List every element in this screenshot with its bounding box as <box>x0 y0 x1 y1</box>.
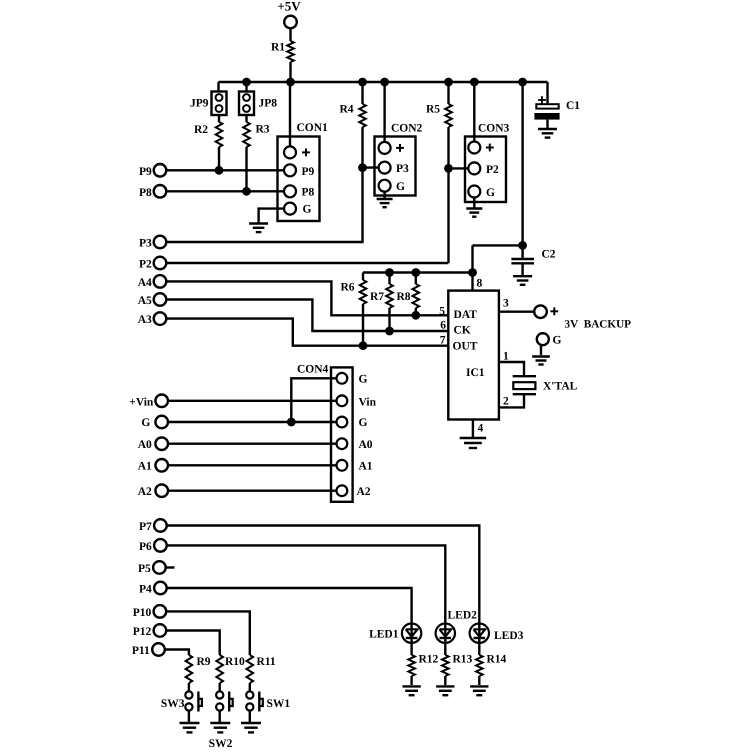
jumper JP9 <box>190 92 227 116</box>
wire <box>245 82 247 92</box>
svg-text:LED3: LED3 <box>494 630 524 642</box>
terminal P9 <box>139 164 166 178</box>
wire <box>245 115 247 122</box>
node CON2 bus <box>380 78 389 87</box>
node R2 P9 <box>215 166 224 175</box>
label SW2 <box>209 738 233 750</box>
pin CON4 G1 <box>337 373 368 386</box>
wire <box>188 683 190 691</box>
ground <box>538 129 557 138</box>
resistor R1 <box>271 41 294 62</box>
svg-text:X'TAL: X'TAL <box>543 381 578 393</box>
svg-text:P9: P9 <box>302 166 315 178</box>
svg-text:A4: A4 <box>138 277 152 289</box>
ground <box>466 209 482 217</box>
resistor R2 <box>194 122 222 147</box>
terminal P7 <box>139 519 167 533</box>
svg-text:R3: R3 <box>256 124 270 136</box>
svg-text:G: G <box>359 417 368 429</box>
svg-text:+Vin: +Vin <box>129 396 154 408</box>
pin CON4 A1 <box>337 460 373 473</box>
wire <box>478 676 480 685</box>
pin CON3 + <box>468 142 493 154</box>
label 3V BACKUP <box>565 318 632 330</box>
terminal P6 <box>139 539 167 553</box>
wire R5 drop <box>447 82 449 104</box>
terminal P11 <box>132 643 165 657</box>
wire vcc pullups <box>363 271 473 273</box>
pin 8 label <box>477 278 483 290</box>
svg-text:CK: CK <box>454 324 471 336</box>
svg-text:P6: P6 <box>139 541 152 553</box>
wire <box>415 273 417 285</box>
terminal A3 <box>138 312 167 326</box>
svg-text:JP8: JP8 <box>259 98 278 110</box>
svg-text:R4: R4 <box>339 104 353 116</box>
svg-text:R1: R1 <box>271 42 285 54</box>
svg-text:A1: A1 <box>138 461 152 473</box>
wire <box>410 643 412 655</box>
svg-text:G: G <box>141 417 150 429</box>
pin CON2 P3 <box>379 162 409 175</box>
wire A3 OUT <box>166 319 448 346</box>
op-amp IC1 body <box>448 291 499 420</box>
wire <box>444 676 446 685</box>
wire G <box>168 421 337 423</box>
svg-text:R12: R12 <box>419 654 439 666</box>
switch SW2 <box>216 691 233 722</box>
svg-text:SW3: SW3 <box>161 698 185 710</box>
svg-text:G: G <box>359 374 368 386</box>
terminal +5V <box>284 16 297 29</box>
svg-text:SW1: SW1 <box>267 698 291 710</box>
wire A1 <box>168 464 337 466</box>
node C2 bus <box>518 78 527 87</box>
svg-text:R7: R7 <box>370 291 384 303</box>
wire pin3 <box>499 311 534 313</box>
resistor R12 <box>408 654 438 677</box>
node R7 ck <box>385 327 394 336</box>
svg-text:P10: P10 <box>133 607 152 619</box>
wire C2 branch <box>521 82 523 258</box>
svg-text:G: G <box>553 334 562 346</box>
svg-text:P3: P3 <box>139 238 152 250</box>
node R5 P2 <box>444 164 453 173</box>
node R4 bus <box>358 78 367 87</box>
svg-text:C1: C1 <box>566 100 580 112</box>
svg-text:P2: P2 <box>486 164 499 176</box>
connector CON2 <box>375 123 423 196</box>
wire C1 drop <box>546 82 548 104</box>
wire <box>363 166 379 168</box>
wire +5V bus <box>219 81 548 83</box>
wire P11 R9 <box>165 650 189 656</box>
pin CON1 + <box>284 146 310 158</box>
pin 6 label <box>440 319 446 331</box>
ground <box>241 723 261 732</box>
svg-text:Vin: Vin <box>359 396 377 408</box>
node R8 vcc <box>411 268 420 277</box>
pin CON3 P2 <box>468 162 499 175</box>
terminal 3V G <box>537 333 562 346</box>
terminal A5 <box>138 293 167 307</box>
wire <box>383 82 385 142</box>
ground <box>210 723 230 732</box>
pin CON3 G <box>468 186 495 199</box>
svg-text:+5V: +5V <box>277 0 301 13</box>
ground <box>460 438 487 448</box>
wire pin1 xtal <box>499 362 524 376</box>
node pin8 vcc <box>468 268 477 277</box>
resistor R5 <box>426 104 452 128</box>
svg-text:A5: A5 <box>138 295 152 307</box>
ground <box>470 686 488 695</box>
svg-text:5: 5 <box>439 305 445 317</box>
wire <box>289 82 291 146</box>
node R3 P8 <box>242 187 251 196</box>
ground <box>249 224 268 233</box>
svg-text:P11: P11 <box>132 645 150 657</box>
svg-text:P8: P8 <box>139 187 152 199</box>
wire A4 DAT <box>166 281 448 315</box>
ground <box>513 276 532 285</box>
wire <box>217 82 219 92</box>
terminal P12 <box>133 624 166 638</box>
svg-text:CON1: CON1 <box>297 122 329 134</box>
svg-text:3: 3 <box>503 298 509 310</box>
jumper JP8 <box>239 92 277 116</box>
wire <box>383 192 385 199</box>
terminal P2 <box>139 257 166 271</box>
LED LED3 <box>470 624 524 643</box>
svg-text:R5: R5 <box>426 104 440 116</box>
svg-text:R2: R2 <box>194 124 208 136</box>
wire A5 CK <box>166 300 448 332</box>
pin CON2 G <box>379 180 405 193</box>
svg-text:A0: A0 <box>138 439 152 451</box>
wire pin4 <box>472 420 474 438</box>
svg-text:P7: P7 <box>139 521 152 533</box>
wire <box>361 127 363 242</box>
svg-text:P8: P8 <box>302 186 315 198</box>
terminal A4 <box>138 275 167 289</box>
svg-text:1: 1 <box>503 351 509 363</box>
terminal P5 <box>138 561 166 575</box>
node R4 P3 <box>358 163 367 172</box>
terminal P10 <box>133 605 166 619</box>
svg-text:P2: P2 <box>139 259 152 271</box>
pin CON4 A0 <box>337 438 373 451</box>
svg-text:OUT: OUT <box>453 341 478 353</box>
connector CON4 <box>297 364 353 502</box>
svg-text:DAT: DAT <box>454 309 478 321</box>
wire P5 stub <box>166 566 175 568</box>
wire <box>362 273 364 281</box>
svg-text:P12: P12 <box>133 626 152 638</box>
wire R4 drop <box>361 82 363 104</box>
resistor R10 <box>216 655 245 683</box>
pin CON4 Vin <box>337 395 377 408</box>
svg-text:R9: R9 <box>197 656 211 668</box>
wire <box>362 304 364 346</box>
wire <box>410 676 412 685</box>
pin CON4 G2 <box>337 417 368 430</box>
wire <box>245 147 247 191</box>
capacitor C2 <box>511 249 555 276</box>
pin 2 label <box>503 396 509 408</box>
svg-text:LED2: LED2 <box>448 610 478 622</box>
svg-text:G: G <box>303 204 312 216</box>
wire <box>249 683 251 691</box>
terminal A0 <box>138 437 168 451</box>
svg-text:C2: C2 <box>542 249 556 261</box>
node R1 bus <box>286 78 295 87</box>
svg-text:A0: A0 <box>359 439 373 451</box>
wire A0 <box>168 443 337 445</box>
node JP8 top <box>242 78 251 87</box>
svg-text:CON2: CON2 <box>391 123 423 135</box>
svg-text:P5: P5 <box>138 563 151 575</box>
ground <box>436 686 454 695</box>
terminal G <box>141 416 168 430</box>
resistor R14 <box>476 654 507 677</box>
connector CON3 <box>465 123 510 203</box>
wire <box>473 198 475 209</box>
svg-text:IC1: IC1 <box>466 367 485 379</box>
svg-text:6: 6 <box>440 319 446 331</box>
wire P9 <box>166 169 284 171</box>
svg-text:CON4: CON4 <box>297 364 329 376</box>
wire <box>218 115 220 122</box>
svg-text:A3: A3 <box>138 314 152 326</box>
svg-text:R8: R8 <box>396 291 410 303</box>
terminal A1 <box>138 459 168 473</box>
wire <box>388 273 390 285</box>
LED LED1 <box>369 624 421 643</box>
resistor R3 <box>243 122 270 147</box>
switch SW3 <box>161 691 202 722</box>
pin 1 label <box>503 351 509 363</box>
svg-text:CON3: CON3 <box>478 123 510 135</box>
wire <box>449 167 469 169</box>
pin 4 label <box>478 423 484 435</box>
wire pin8 drop <box>471 245 473 290</box>
wire P2 <box>166 262 448 264</box>
crystal XTAL <box>513 376 578 394</box>
wire <box>478 643 480 655</box>
svg-text:P3: P3 <box>396 163 409 175</box>
ground <box>180 723 200 732</box>
svg-text:R13: R13 <box>453 654 473 666</box>
node R7 vcc <box>385 268 394 277</box>
svg-text:4: 4 <box>478 423 484 435</box>
wire P4 LED1 <box>167 588 412 623</box>
pin 7 label <box>440 335 446 347</box>
wire P3 <box>166 241 363 243</box>
wire A2 <box>168 490 337 492</box>
resistor R9 <box>186 655 211 683</box>
node CON3 bus <box>470 78 479 87</box>
resistor R8 <box>396 284 419 308</box>
resistor R6 <box>340 280 366 304</box>
svg-text:2: 2 <box>503 396 509 408</box>
ground <box>377 199 393 207</box>
terminal 3V + <box>534 305 558 318</box>
LED LED2 <box>436 610 478 643</box>
svg-text:A2: A2 <box>138 486 152 498</box>
resistor R11 <box>247 655 276 683</box>
svg-text:R10: R10 <box>225 656 245 668</box>
svg-text:P9: P9 <box>139 166 152 178</box>
wire <box>218 147 220 170</box>
pin CON2 + <box>379 142 404 154</box>
wire <box>444 643 446 655</box>
svg-text:8: 8 <box>477 278 483 290</box>
svg-text:G: G <box>486 187 495 199</box>
connector CON1 <box>278 122 329 221</box>
switch SW1 <box>246 691 290 722</box>
wire <box>289 29 291 42</box>
wire G up <box>291 378 336 422</box>
pin CON1 P9 <box>284 164 315 178</box>
resistor R4 <box>339 104 365 128</box>
node C2 vcc <box>518 241 527 250</box>
node G <box>287 418 296 427</box>
node R5 bus <box>444 78 453 87</box>
wire <box>473 82 475 142</box>
pin 5 label <box>439 305 445 317</box>
svg-text:SW2: SW2 <box>209 738 233 750</box>
pin 3 label <box>503 298 509 310</box>
wire <box>218 683 220 691</box>
wire <box>473 244 523 246</box>
node R6 out <box>359 341 368 350</box>
svg-text:G: G <box>396 181 405 193</box>
svg-text:R6: R6 <box>340 282 354 294</box>
resistor R7 <box>370 284 393 308</box>
wire CON1 G <box>259 209 284 223</box>
svg-text:3V BACKUP: 3V BACKUP <box>565 318 632 330</box>
terminal +Vin <box>129 395 168 409</box>
wire <box>388 308 390 331</box>
ground <box>532 357 550 365</box>
terminal P8 <box>139 185 166 199</box>
svg-text:A2: A2 <box>357 486 371 498</box>
svg-text:JP9: JP9 <box>190 98 209 110</box>
svg-text:R14: R14 <box>487 654 507 666</box>
wire P12 R10 <box>166 631 220 656</box>
terminal A2 <box>138 484 168 498</box>
wire <box>447 127 449 263</box>
wire <box>289 62 291 83</box>
svg-text:7: 7 <box>440 335 446 347</box>
pin CON1 P8 <box>284 185 315 198</box>
wire P8 <box>166 190 284 192</box>
ground <box>402 686 420 695</box>
pin CON1 G <box>284 203 312 216</box>
pin CON4 A2 <box>337 485 371 498</box>
wire Vin <box>168 400 337 402</box>
wire pin2 xtal <box>499 394 524 407</box>
terminal P3 <box>139 236 166 250</box>
svg-text:P4: P4 <box>139 583 152 595</box>
wire <box>540 345 542 355</box>
capacitor C1 <box>534 96 580 128</box>
resistor R13 <box>442 654 473 677</box>
wire P6 LED2 <box>167 545 446 622</box>
terminal P4 <box>139 582 167 596</box>
node R8 dat <box>411 311 420 320</box>
svg-text:LED1: LED1 <box>369 628 399 640</box>
wire P7 LED3 <box>167 526 480 623</box>
wire P10 R11 <box>166 611 250 655</box>
wire <box>415 308 417 315</box>
svg-text:R11: R11 <box>257 656 276 668</box>
power +5V label <box>277 0 301 13</box>
svg-text:A1: A1 <box>359 461 373 473</box>
